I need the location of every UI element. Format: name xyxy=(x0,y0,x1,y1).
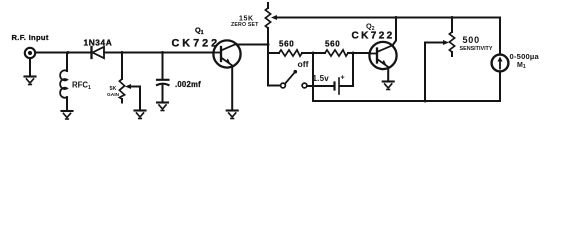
label 0-500ua M1 xyxy=(510,52,540,70)
svg-text:off: off xyxy=(298,59,309,69)
wire top rail (15K wiper to meter) xyxy=(276,17,500,19)
svg-text:.002mf: .002mf xyxy=(175,80,201,89)
wire bottom rail xyxy=(313,100,500,102)
svg-text:1N34A: 1N34A xyxy=(84,38,113,48)
label Q2 CK722 xyxy=(352,22,395,42)
wire Q1 collector to 15K pot xyxy=(237,44,269,46)
wire switch to battery xyxy=(307,85,334,87)
node junction Q1 collector at 15K xyxy=(267,43,270,46)
node junction RFC1 xyxy=(67,51,70,54)
switch S1 xyxy=(281,70,307,88)
label 500 SENSITIVITY xyxy=(460,35,493,52)
potentiometer R5 500 SENSITIVITY xyxy=(425,18,455,102)
ground (below RFC1) xyxy=(62,111,73,119)
inductor RFC1 xyxy=(60,53,67,112)
ground (below C1) xyxy=(157,103,168,111)
potentiometer R2 15K ZERO SET xyxy=(265,3,277,86)
label Q1 CK722 xyxy=(172,25,221,49)
svg-text:CK722: CK722 xyxy=(172,37,221,49)
svg-text:560: 560 xyxy=(279,40,294,49)
ground (below connector) xyxy=(25,77,36,85)
svg-text:560: 560 xyxy=(325,40,340,49)
wire between 560s xyxy=(302,52,325,54)
label 5K GAIN xyxy=(107,86,120,98)
resistor R4 560 xyxy=(325,50,348,56)
node junction 500 pot top xyxy=(451,16,454,19)
meter M1 xyxy=(492,55,509,72)
node junction C1 xyxy=(161,51,164,54)
label 15K ZERO SET xyxy=(231,15,259,28)
wire 560 to Q2 base xyxy=(348,52,370,54)
potentiometer R1 5K GAIN xyxy=(119,53,140,111)
svg-text:CK722: CK722 xyxy=(352,31,395,42)
node junction battery positive xyxy=(352,52,355,55)
svg-text:0-500µa: 0-500µa xyxy=(510,52,540,61)
ground (below 5K wiper) xyxy=(135,111,146,119)
node junction Q2 collector at rail xyxy=(395,16,398,19)
node junction sensitivity wiper at bottom rail xyxy=(424,100,427,103)
capacitor C1 .002mf xyxy=(157,53,169,103)
svg-text:+: + xyxy=(341,75,345,82)
svg-text:500: 500 xyxy=(463,35,480,45)
wire Q2 emitter to ground xyxy=(387,68,389,82)
ground (below Q2 emitter) xyxy=(383,82,394,90)
svg-text:ZERO SET: ZERO SET xyxy=(231,22,259,28)
wire battery to 560 rail xyxy=(340,53,353,86)
battery B1 1.5v xyxy=(335,78,340,94)
svg-text:R.F. Input: R.F. Input xyxy=(12,33,49,42)
connector J1 (coax input) xyxy=(25,48,35,58)
transistor Q2 CK722 xyxy=(369,42,396,69)
node junction 5K pot xyxy=(121,51,124,54)
transistor Q1 CK722 xyxy=(213,40,240,67)
wire bias divider (560 junction down to bottom rail) xyxy=(312,53,314,101)
wire main input line xyxy=(35,52,90,54)
diode D1 1N34A xyxy=(92,47,105,58)
svg-text:1.5v: 1.5v xyxy=(313,74,330,83)
wire right rail down to meter xyxy=(499,18,501,55)
wire meter to bottom rail xyxy=(499,71,501,101)
node junction 560/560 xyxy=(312,52,315,55)
wire Q1 emitter to ground xyxy=(231,66,233,111)
ground (below Q1 emitter) xyxy=(227,111,238,119)
svg-text:GAIN: GAIN xyxy=(107,92,120,98)
resistor R3 560 xyxy=(279,50,302,56)
wire diode to Q1 base xyxy=(104,52,213,54)
label 1.5v + xyxy=(313,74,345,83)
wire switch feed xyxy=(268,85,281,87)
wire connector to ground xyxy=(29,58,31,76)
wire Q2 collector to top rail xyxy=(393,18,397,46)
svg-text:5K: 5K xyxy=(110,86,117,92)
svg-text:SENSITIVITY: SENSITIVITY xyxy=(460,46,493,52)
wire 560 rail start xyxy=(268,52,279,54)
